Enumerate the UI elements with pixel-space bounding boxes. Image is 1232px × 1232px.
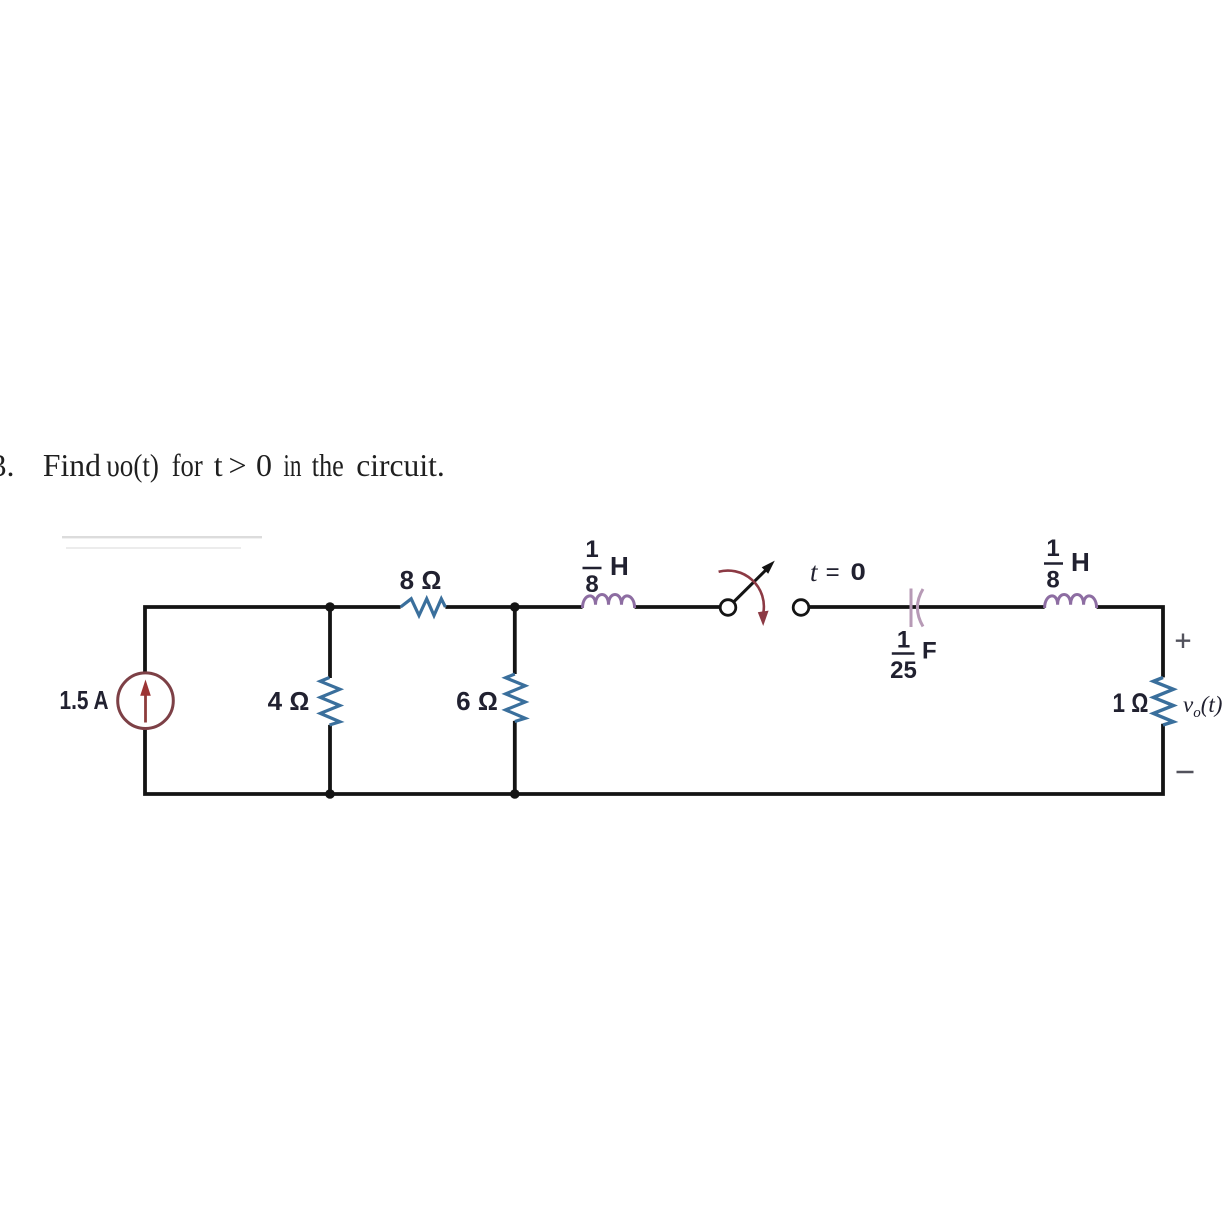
svg-text:8: 8 (1046, 567, 1059, 594)
svg-text:1.5 A: 1.5 A (60, 685, 109, 715)
inductor L1 coil 1/8 H (583, 594, 635, 608)
svg-text:1: 1 (585, 536, 598, 563)
capacitor C 1/25 F: curved plate (917, 589, 923, 627)
current source arrow head (140, 680, 151, 696)
wire vertical at node x=514.8 lower (513, 721, 517, 796)
svg-text:F: F (922, 638, 937, 665)
plus sign (1176, 634, 1190, 649)
svg-text:H: H (610, 551, 629, 581)
svg-text:6 Ω: 6 Ω (456, 686, 498, 716)
svg-text:H: H (1071, 547, 1090, 577)
minus sign (1177, 771, 1194, 774)
svg-text:vo(t): vo(t) (1183, 692, 1222, 721)
resistor 4ohm zigzag (320, 678, 340, 726)
svg-text:1 Ω: 1 Ω (1113, 688, 1149, 718)
label 1/25 F: fraction bar (892, 652, 915, 655)
wire vertical at node x=514.8 upper (513, 605, 517, 674)
svg-text:8: 8 (585, 571, 598, 598)
wire inductor L1 to switch (635, 605, 721, 609)
node dot bottom at x=514.8 (510, 789, 520, 799)
resistor 8ohm zigzag (horizontal) (401, 599, 446, 616)
scan artifact faint lines (62, 536, 262, 538)
wire top middle (8ohm to 6ohm node to inductor L1) (445, 605, 582, 609)
svg-text:4 Ω: 4 Ω (268, 686, 310, 716)
switch blade arrow head (762, 561, 775, 574)
svg-text:1: 1 (1046, 535, 1059, 562)
node dot bottom at x=330 (325, 789, 335, 799)
wire vertical at node x=330 lower (328, 725, 332, 796)
node dot top at x=514.8 (510, 602, 520, 612)
wire inductor L2 to top-right corner and right vertical upper (1097, 607, 1163, 677)
wire top-left corner and left vertical upper (145, 607, 401, 673)
resistor 6ohm zigzag (506, 674, 526, 722)
wire switch to inductor L2 (capacitor overlaid) (809, 605, 1045, 609)
switch motion arc (dark red) (719, 571, 764, 613)
switch blade (734, 570, 767, 602)
current source arrow shaft (144, 692, 147, 723)
problem statement text (0, 447, 445, 483)
switch pivot circle (720, 600, 736, 616)
label 1/8 H for L1: fraction bar (583, 567, 602, 570)
switch contact circle (793, 600, 809, 616)
capacitor C 1/25 F: flat plate (910, 589, 913, 628)
switch motion arrow head (dark red) (758, 611, 769, 626)
current source 1.5A circle (118, 673, 174, 729)
svg-text:1: 1 (897, 627, 910, 654)
inductor L2 coil 1/8 H (1045, 594, 1097, 608)
resistor 1ohm zigzag (1153, 678, 1173, 726)
svg-text:8 Ω: 8 Ω (400, 565, 442, 595)
svg-text:3.Findυo(t)fort>0inthecircuit.: 3.Findυo(t)fort>0inthecircuit. (0, 447, 445, 483)
wire vertical at node x=330 upper (328, 605, 332, 678)
wire right vertical lower, bottom wire, left vertical lower (145, 724, 1163, 794)
label 1/8 H for L2: fraction bar (1044, 562, 1063, 565)
node dot top at x=330 (325, 602, 335, 612)
svg-text:25: 25 (890, 657, 917, 684)
